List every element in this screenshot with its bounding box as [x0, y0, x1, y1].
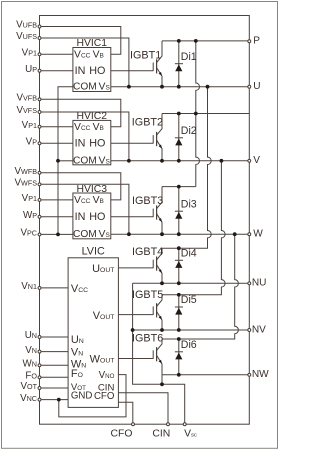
svg-text:IN: IN	[75, 65, 86, 77]
svg-text:VWFB: VWFB	[14, 166, 37, 177]
svg-text:VNC: VNC	[20, 393, 37, 404]
pin W	[248, 229, 263, 240]
svg-text:VVFS: VVFS	[16, 105, 37, 116]
wire HVIC3 HO to IGBT3 gate	[111, 216, 153, 218]
wire P bus down	[196, 41, 200, 187]
pin VP1	[22, 48, 41, 59]
wire VWFB to HVIC3 VB	[40, 173, 121, 200]
svg-text:VWFS: VWFS	[14, 178, 37, 189]
pin NV	[248, 324, 266, 335]
node P rail junctions	[177, 39, 181, 43]
op-amp U4 LVIC driver box	[68, 246, 118, 408]
node IGBT2 collector junctions	[177, 112, 181, 116]
wire WP to HVIC3 IN	[40, 216, 73, 218]
wire VUFB to HVIC1 VB	[40, 27, 121, 55]
svg-text:IGBT6: IGBT6	[132, 333, 163, 345]
pin VUFS	[16, 31, 41, 42]
pin VWFS	[14, 178, 40, 189]
wire UN to LVIC	[40, 336, 69, 338]
svg-text:WN: WN	[23, 359, 37, 370]
svg-text:W: W	[253, 229, 263, 240]
svg-text:WP: WP	[23, 210, 37, 221]
node NU rail junctions	[160, 281, 164, 285]
node IGBT3 collector junction	[177, 185, 181, 189]
wire VN1 to LVIC VCC	[40, 287, 69, 289]
svg-text:Di4: Di4	[181, 248, 197, 260]
svg-text:LVIC: LVIC	[82, 246, 105, 258]
svg-text:IGBT5: IGBT5	[132, 289, 163, 301]
svg-text:VP1: VP1	[22, 120, 37, 131]
svg-text:COM: COM	[73, 229, 97, 240]
diode Di3	[175, 187, 197, 235]
diode Di5	[175, 294, 197, 330]
node IGBT5 collector junction	[177, 293, 181, 297]
pin NU	[248, 278, 267, 289]
wire node NW rail	[162, 374, 249, 376]
svg-text:COM: COM	[73, 156, 97, 167]
node W rail junctions	[127, 232, 131, 236]
wire VWFS to W node	[40, 184, 129, 234]
wire WN to LVIC	[40, 364, 69, 366]
op-amp U1 HVIC1 driver box	[73, 38, 111, 92]
svg-text:VOT: VOT	[20, 381, 37, 392]
node V rail junctions	[127, 159, 131, 163]
svg-text:IGBT2: IGBT2	[132, 117, 163, 129]
pin Vsc	[183, 423, 197, 440]
svg-text:V: V	[253, 155, 260, 166]
wire W phase down to IGBT6 collector	[162, 234, 238, 339]
wire VN to LVIC	[40, 351, 69, 353]
wire LVIC VOUT to IGBT5 gate	[118, 314, 153, 316]
svg-text:Di3: Di3	[181, 198, 197, 210]
svg-text:VN: VN	[25, 345, 37, 356]
wire VP1 to HVIC1 VCC	[40, 53, 73, 55]
svg-text:VUFB: VUFB	[16, 20, 37, 31]
svg-text:HVIC1: HVIC1	[76, 38, 107, 49]
svg-text:Di6: Di6	[181, 339, 197, 351]
svg-text:HO: HO	[89, 137, 105, 149]
wire UP to HVIC1 IN	[40, 70, 73, 72]
pin VNC	[20, 393, 41, 404]
node NV rail junctions	[131, 328, 135, 332]
svg-text:CIN: CIN	[152, 428, 170, 439]
svg-text:Di1: Di1	[181, 51, 197, 63]
svg-text:VP: VP	[26, 137, 38, 148]
pin UN	[25, 330, 41, 341]
svg-text:HVIC2: HVIC2	[76, 111, 107, 122]
svg-text:CFO: CFO	[94, 391, 115, 402]
wire IGBT6 emitter to Vsc line	[161, 375, 163, 385]
pin U	[248, 81, 261, 92]
transistor Q1 IGBT1	[130, 41, 162, 87]
svg-text:NV: NV	[252, 324, 266, 335]
wire IGBT2 collector rail	[162, 113, 249, 115]
pin FO	[25, 371, 41, 382]
transistor Q6 IGBT6	[132, 333, 163, 375]
svg-text:P: P	[253, 36, 260, 47]
wire VVFS to V node	[40, 112, 129, 161]
diode Di2	[175, 114, 197, 161]
wire FO to LVIC	[40, 376, 69, 378]
svg-text:VP1: VP1	[22, 48, 37, 59]
node IGBT6 collector junction	[177, 337, 181, 341]
pin WN	[23, 359, 41, 370]
pin CIN	[152, 423, 170, 440]
svg-text:COM: COM	[73, 82, 97, 93]
node COM bus junctions	[56, 159, 60, 163]
transistor Q2 IGBT2	[132, 114, 163, 161]
diode Di4	[175, 248, 197, 284]
svg-text:Di2: Di2	[181, 125, 197, 137]
op-amp U3 HVIC3 driver box	[73, 184, 111, 240]
svg-text:UN: UN	[25, 330, 37, 341]
wire node U rail	[111, 86, 250, 88]
transistor Q3 IGBT3	[132, 187, 163, 235]
node GND junction	[57, 398, 61, 402]
svg-text:HO: HO	[89, 65, 105, 77]
pin VN	[25, 345, 41, 356]
wire node P rail	[162, 40, 249, 42]
wire LVIC VNO loop to GND	[59, 375, 126, 417]
diode Di6	[175, 339, 197, 375]
wire node W rail	[111, 233, 250, 235]
pin VWFB	[14, 166, 40, 177]
wire VPC to HVIC3 COM	[40, 233, 73, 235]
pin UP	[25, 64, 41, 75]
svg-text:VVFB: VVFB	[16, 93, 37, 104]
wire VOT to LVIC	[40, 387, 69, 389]
svg-text:NW: NW	[252, 369, 269, 380]
pin VUFB	[16, 20, 41, 31]
svg-text:HO: HO	[89, 211, 105, 223]
pin VP	[26, 137, 41, 148]
svg-text:VN1: VN1	[21, 281, 37, 292]
svg-text:UP: UP	[25, 64, 37, 75]
wire LVIC CFO to CFO pin	[118, 402, 132, 424]
wire VP to HVIC2 IN	[40, 142, 73, 144]
svg-text:GND: GND	[71, 390, 93, 401]
wire NU NV tie line down to Vsc	[133, 283, 185, 424]
pin VOT	[20, 381, 40, 392]
svg-text:CFO: CFO	[111, 428, 133, 439]
svg-text:IGBT3: IGBT3	[132, 195, 163, 207]
pin VN1	[21, 281, 41, 292]
wire VP1 to HVIC2 VCC	[40, 126, 73, 128]
svg-text:VPC: VPC	[20, 228, 37, 239]
pin VVFB	[16, 93, 40, 104]
pin P	[248, 36, 260, 47]
svg-text:Di5: Di5	[181, 294, 197, 306]
wire node NU rail	[133, 282, 250, 284]
wire HVIC2 HO to IGBT2 gate	[111, 142, 153, 144]
pin NW	[248, 369, 269, 380]
svg-text:IN: IN	[75, 137, 86, 149]
wire HVIC1 HO to IGBT1 gate	[111, 70, 153, 72]
wire VUFS to U node	[40, 38, 129, 87]
node IGBT4 collector junction	[177, 246, 181, 250]
transistor Q5 IGBT5	[132, 289, 163, 330]
svg-text:IN: IN	[75, 211, 86, 223]
wire VVFB to HVIC2 VB	[40, 99, 121, 126]
svg-text:HVIC3: HVIC3	[76, 184, 107, 195]
wire VP1 to HVIC3 VCC	[40, 199, 73, 201]
pin VPC	[20, 228, 40, 239]
diode Di1	[175, 41, 197, 87]
pin VP1	[22, 193, 41, 204]
transistor Q4 IGBT4	[132, 246, 163, 283]
pin V	[248, 155, 260, 166]
wire IGBT3 collector rail	[162, 186, 196, 188]
svg-text:NU: NU	[252, 278, 267, 289]
svg-text:IGBT1: IGBT1	[130, 50, 161, 62]
wire LVIC UOUT to IGBT4 gate	[118, 267, 153, 269]
wire node V rail	[111, 160, 250, 162]
node U rail junctions	[127, 85, 131, 89]
node Vsc line junction	[160, 382, 164, 386]
svg-text:VP1: VP1	[22, 193, 37, 204]
wire HVIC2 COM to bus	[58, 160, 73, 162]
svg-text:IGBT4: IGBT4	[132, 246, 163, 258]
wire LVIC WOUT to IGBT6 gate	[118, 358, 153, 360]
pin WP	[23, 210, 41, 221]
svg-text:VUFS: VUFS	[16, 31, 37, 42]
wire VNC to LVIC GND	[40, 399, 69, 401]
node NW rail junction	[177, 373, 181, 377]
op-amp U2 HVIC2 driver box	[73, 111, 111, 166]
svg-text:FO: FO	[25, 371, 37, 382]
pin CFO	[111, 423, 135, 440]
wire U phase down to IGBT4 collector	[162, 87, 211, 249]
package outline	[40, 16, 250, 425]
svg-text:U: U	[253, 81, 260, 92]
pin VVFS	[16, 105, 40, 116]
wire node NV rail	[133, 329, 250, 331]
wire LVIC CIN to CIN pin	[118, 393, 168, 424]
wire COM bus	[58, 87, 73, 235]
wire V phase down to IGBT5 collector	[162, 161, 225, 295]
pin VP1	[22, 120, 41, 131]
